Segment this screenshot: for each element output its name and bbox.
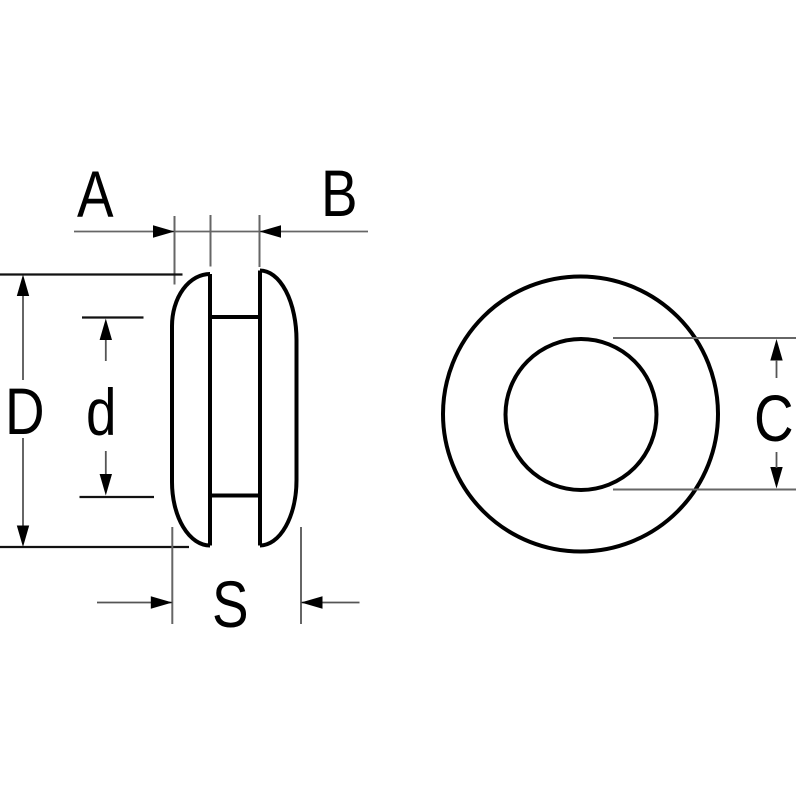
right flange outer profile: [260, 271, 297, 546]
outer circle: [443, 277, 718, 552]
d down arrow: [100, 474, 112, 496]
d shaft upper: [105, 339, 107, 361]
bore bottom line: [210, 494, 260, 498]
C bottom extension line: [613, 489, 796, 491]
C down arrow: [770, 467, 782, 489]
tick 1: [174, 216, 176, 285]
D up arrow: [17, 275, 29, 297]
S right extension line: [300, 527, 302, 624]
d shaft lower: [105, 451, 107, 475]
S left dim line: [97, 602, 172, 604]
tick 2: [210, 215, 212, 267]
d top extension line: [82, 316, 144, 318]
S right dim line: [301, 602, 360, 604]
d up arrow: [100, 319, 112, 341]
C shaft lower: [776, 452, 778, 468]
left flange outer profile: [172, 274, 210, 546]
svg-text:d: d: [86, 375, 116, 449]
svg-text:A: A: [77, 157, 114, 231]
svg-text:B: B: [321, 156, 358, 230]
bore top line: [210, 315, 260, 319]
C top extension line: [613, 337, 796, 339]
tick 3: [259, 215, 261, 267]
svg-text:S: S: [212, 567, 249, 641]
S left extension line: [171, 527, 173, 624]
arrow right: [153, 225, 175, 237]
S arrow left: [301, 596, 323, 608]
svg-text:C: C: [754, 381, 794, 455]
left flange inner edge: [208, 274, 212, 546]
D shaft lower: [22, 438, 24, 527]
C shaft upper: [776, 360, 778, 378]
S arrow right: [151, 596, 173, 608]
C up arrow: [770, 339, 782, 361]
inner circle: [506, 339, 657, 490]
right flange inner edge: [258, 271, 262, 546]
arrow left: [260, 225, 282, 237]
D bottom extension line: [0, 546, 189, 548]
d bottom extension line: [80, 496, 155, 498]
svg-text:D: D: [5, 374, 45, 448]
D top extension line: [0, 273, 183, 275]
D shaft upper: [22, 294, 24, 380]
A-B dimension line: [74, 231, 368, 233]
D down arrow: [17, 526, 29, 548]
